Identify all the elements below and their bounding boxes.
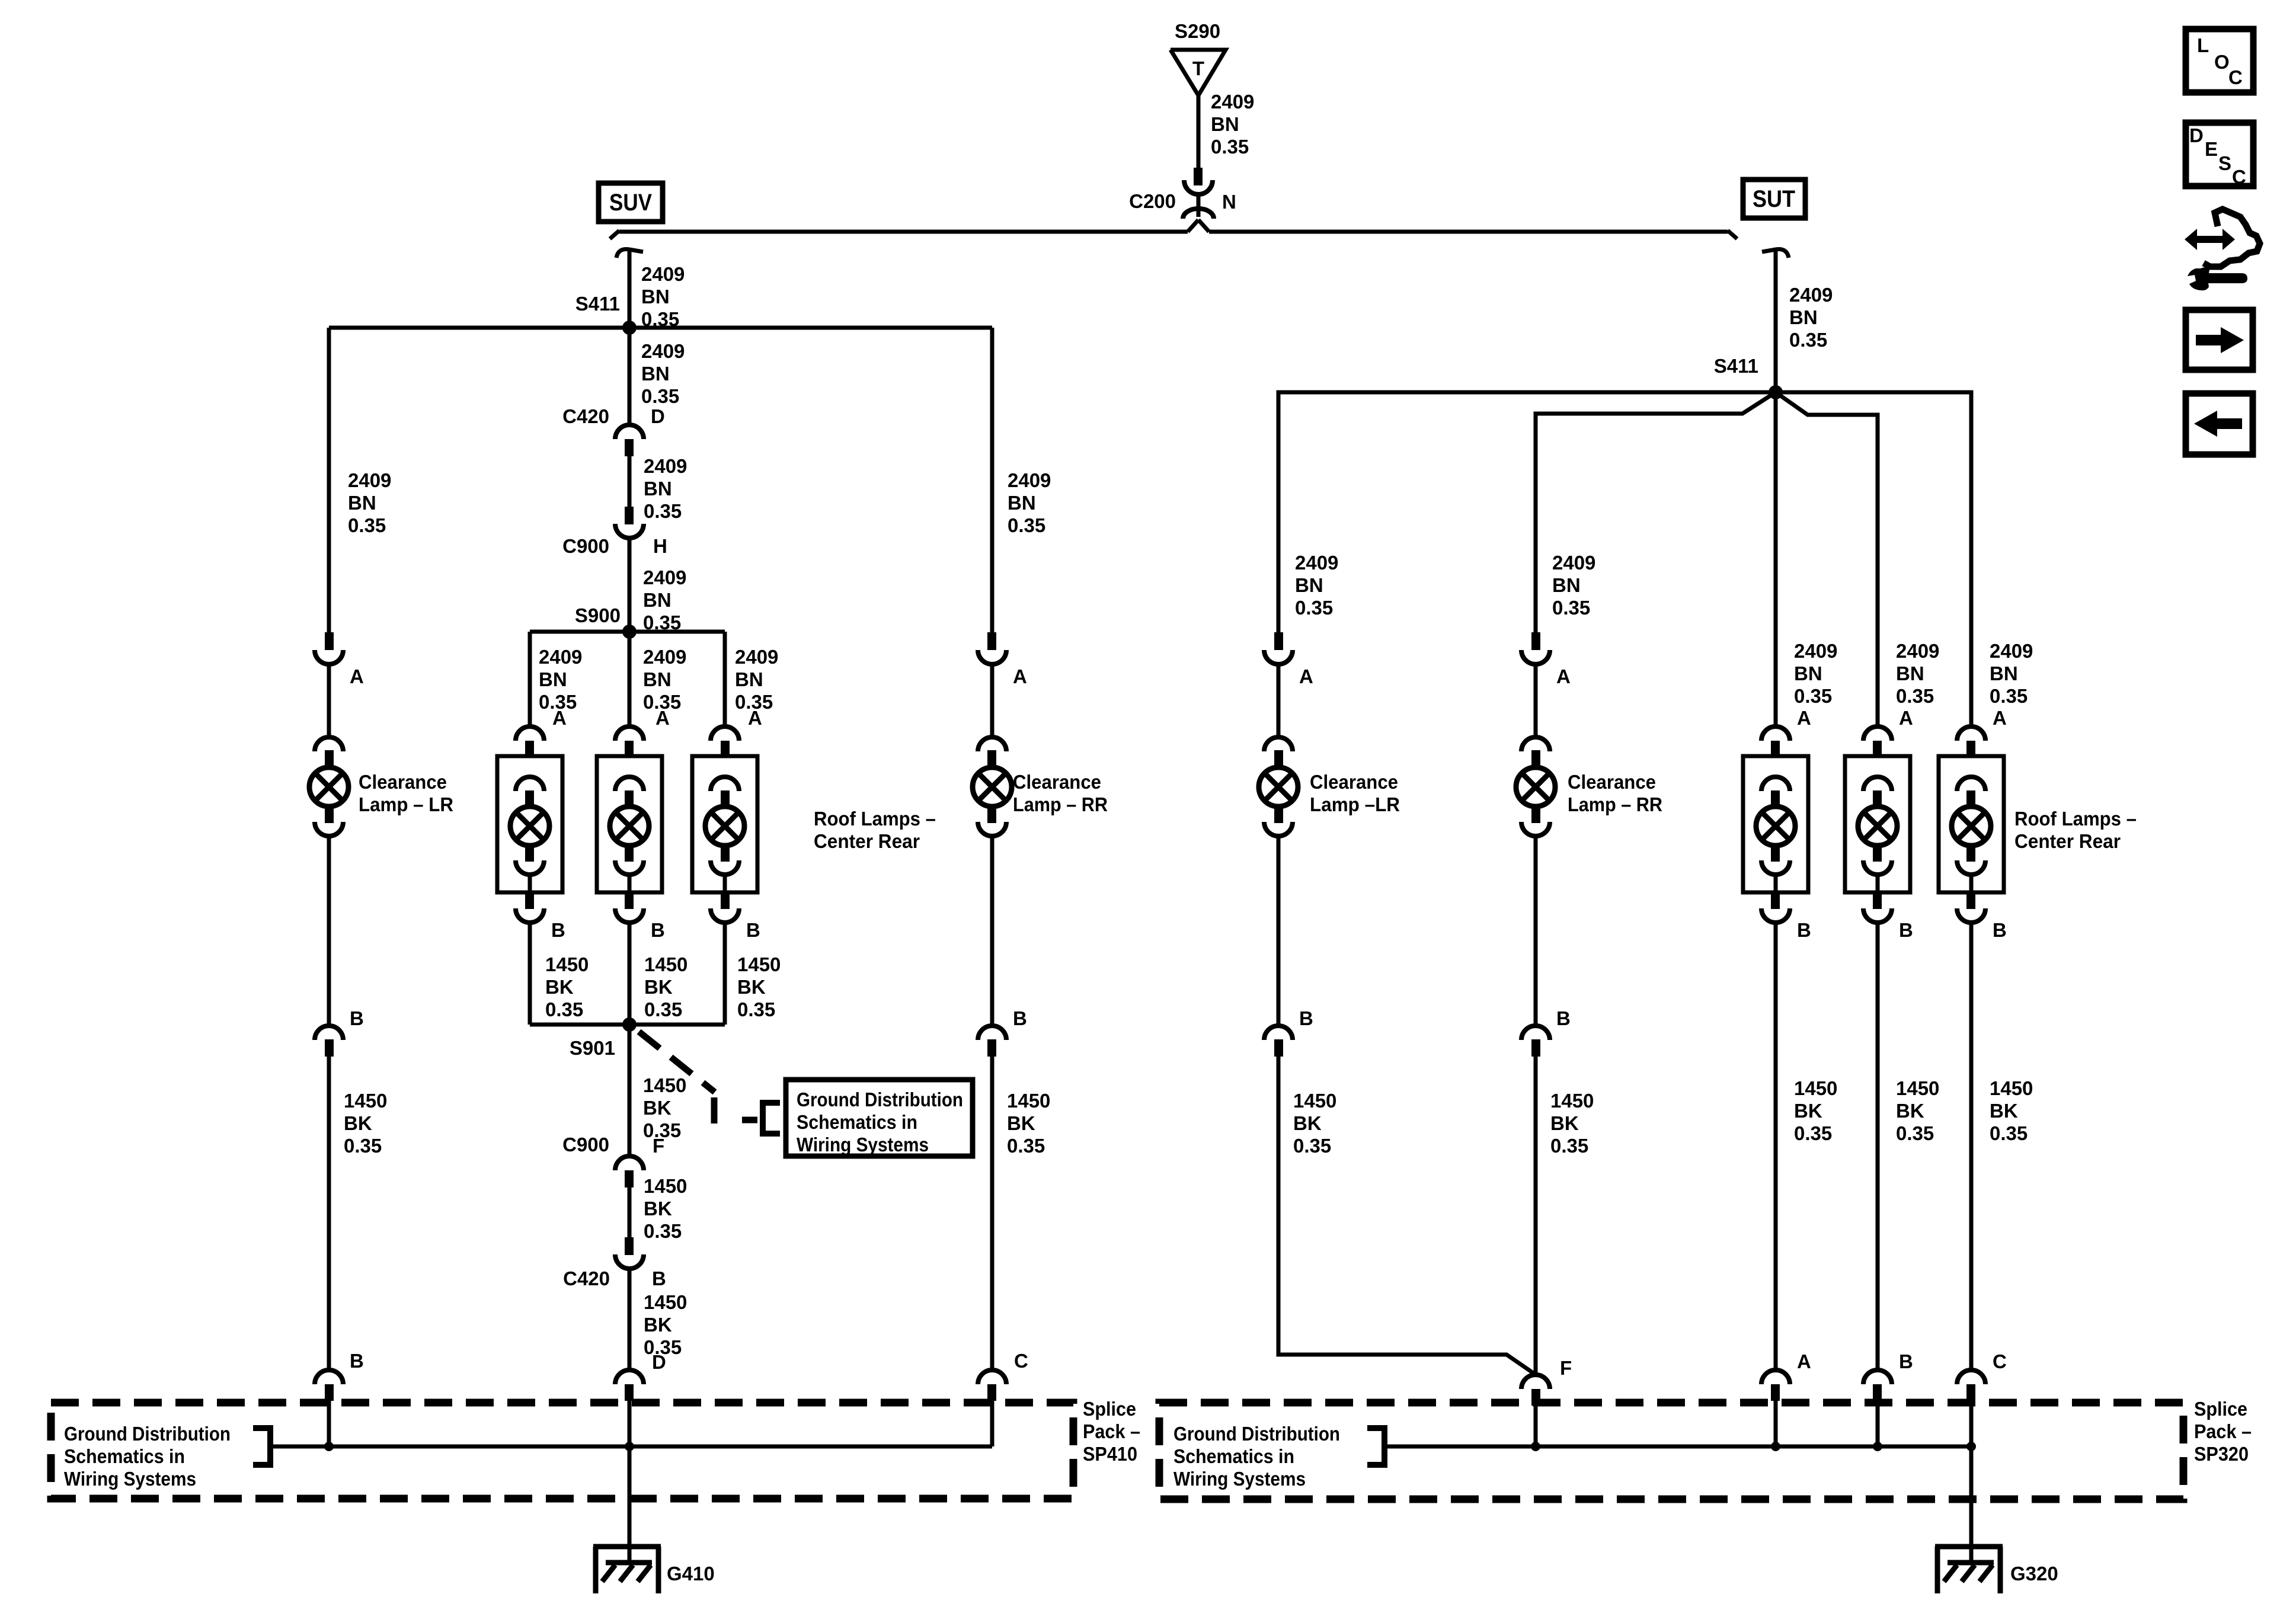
bus break chevron at C200	[1188, 220, 1209, 232]
svg-text:F: F	[1560, 1357, 1572, 1379]
svg-text:2409: 2409	[1552, 552, 1595, 574]
inline connector A (clearance LR right)	[1264, 632, 1293, 664]
connector pin letter B (clearance RR right)	[1556, 1007, 1571, 1029]
svg-text:S411: S411	[575, 293, 620, 315]
splice pack SP410 pin C connector	[978, 1370, 1006, 1401]
roof lamp 2 box (right)	[1845, 756, 1910, 892]
wire clearance LR right to F junction	[1278, 1057, 1536, 1374]
svg-text:2409: 2409	[644, 455, 687, 477]
svg-text:A: A	[552, 707, 567, 729]
wire take-off curl left (SUV)	[616, 249, 643, 258]
svg-text:C: C	[1014, 1350, 1028, 1372]
svg-text:2409: 2409	[1295, 552, 1338, 574]
wire label 1450 BK 0.35 (S901-C900)	[643, 1074, 686, 1141]
wire SP410 to ground G410	[628, 1446, 632, 1563]
svg-text:2409: 2409	[1896, 640, 1939, 662]
wire S411 to roof lamp 2 (right)	[1776, 392, 1878, 726]
splice pack SP320 dashed box	[1159, 1403, 2183, 1499]
wire S411 down to C420 (left center)	[628, 328, 632, 424]
connector pin letter A (clearance LR left)	[350, 665, 364, 687]
svg-text:2409: 2409	[643, 646, 686, 668]
svg-text:BN: BN	[1789, 306, 1818, 328]
svg-text:Lamp – RR: Lamp – RR	[1568, 793, 1662, 815]
wire S900 branch to roof lamp 1 (left)	[528, 632, 532, 726]
wire A to clearance lamp LR (left)	[327, 664, 331, 737]
svg-text:Clearance: Clearance	[1568, 771, 1656, 793]
svg-text:1450: 1450	[737, 953, 781, 975]
svg-text:Lamp – RR: Lamp – RR	[1013, 793, 1108, 815]
svg-text:Ground Distribution: Ground Distribution	[1173, 1423, 1340, 1445]
dashed reference leader from S901	[639, 1032, 757, 1124]
wire pin A to SP320 bus	[1774, 1401, 1778, 1446]
svg-text:BN: BN	[1008, 492, 1036, 514]
inline connector B (roof lamp 2 left)	[615, 892, 644, 923]
connector pin letter B (roof lamp 3 left)	[746, 919, 760, 941]
roof lamp 1 box (right)	[1743, 756, 1808, 892]
splice pack SP410 label	[1083, 1398, 1140, 1465]
wire label 1450 BK 0.35 (roof lamp 1 right)	[1794, 1077, 1837, 1144]
wire S411 to roof lamp 3 (right)	[1776, 392, 1971, 726]
svg-text:Wiring Systems: Wiring Systems	[797, 1134, 929, 1156]
svg-text:2409: 2409	[735, 646, 778, 668]
svg-text:0.35: 0.35	[1896, 1122, 1934, 1144]
splice pack pin letter F	[1560, 1357, 1572, 1379]
connector pin letter A (clearance LR right)	[1299, 665, 1313, 687]
svg-text:A: A	[1993, 707, 2007, 729]
roof lamp 1 bulb (left)	[510, 777, 549, 892]
splice pack SP410 dashed box	[51, 1403, 1073, 1499]
wire B to splice pack (clearance RR left)	[990, 1057, 994, 1369]
connector pin letter B (clearance LR left)	[350, 1007, 364, 1029]
splice pack SP320 label	[2194, 1398, 2252, 1465]
splice pack SP320 pin B connector	[1863, 1370, 1892, 1401]
wire label 2409 BN 0.35 (roof lamp 1 right)	[1794, 640, 1837, 707]
connector C900 name label (bottom)	[562, 1134, 609, 1156]
svg-text:Center Rear: Center Rear	[2014, 830, 2121, 852]
roof lamp 2 box (left)	[597, 756, 662, 892]
wire pin F to SP320 bus	[1534, 1406, 1538, 1446]
connector pin letter B (clearance RR left)	[1013, 1007, 1027, 1029]
svg-text:C420: C420	[562, 405, 609, 427]
splice pack SP410 note text	[64, 1423, 231, 1490]
connector pin letter A (roof lamp 2 left)	[655, 707, 670, 729]
splice pack SP320 pin A connector	[1761, 1370, 1790, 1401]
wire S411 to clearance lamp LR (left)	[327, 328, 331, 632]
splice pack SP320 note bracket	[1367, 1428, 1384, 1465]
svg-text:SUV: SUV	[609, 190, 652, 216]
svg-text:BK: BK	[344, 1112, 372, 1134]
splice pack SP320 pin F connector	[1521, 1375, 1550, 1406]
svg-text:L: L	[2197, 34, 2209, 56]
inline connector A (clearance LR left)	[315, 632, 343, 664]
svg-text:2409: 2409	[1990, 640, 2033, 662]
svg-text:B: B	[1013, 1007, 1027, 1029]
svg-text:1450: 1450	[1896, 1077, 1939, 1099]
roof lamps name label (right)	[2014, 808, 2137, 852]
wire S411 down to roof lamp 1 (right)	[1774, 392, 1778, 726]
svg-text:0.35: 0.35	[348, 514, 386, 536]
svg-text:1450: 1450	[1550, 1090, 1594, 1112]
svg-text:Roof Lamps –: Roof Lamps –	[2014, 808, 2137, 830]
splice S901 junction dot	[622, 1017, 637, 1032]
splice pack pin letter C (right)	[1993, 1350, 2007, 1372]
svg-text:S: S	[2218, 152, 2231, 174]
wire A to clearance lamp RR (left)	[990, 664, 994, 737]
svg-text:0.35: 0.35	[1896, 685, 1934, 707]
splice S290 triangle symbol	[1171, 50, 1226, 95]
wire clearance RR right to F connector	[1534, 1057, 1538, 1374]
svg-text:0.35: 0.35	[1794, 1122, 1832, 1144]
wire label 1450 BK 0.35 (clearance RR right)	[1550, 1090, 1594, 1157]
wire roof lamp 2 to S901 (left)	[628, 923, 632, 1025]
roof lamp 2 bulb (left)	[610, 777, 649, 892]
wire S411 to clearance lamp RR (left)	[990, 328, 994, 632]
connector pin letter B (roof lamp 2 right)	[1899, 919, 1913, 941]
svg-text:B: B	[350, 1007, 364, 1029]
svg-text:A: A	[1899, 707, 1913, 729]
svg-text:G410: G410	[667, 1563, 715, 1585]
wire label 2409 BN 0.35 (S290-C200)	[1211, 91, 1254, 158]
svg-text:0.35: 0.35	[344, 1135, 382, 1157]
svg-text:B: B	[1899, 1350, 1913, 1372]
svg-text:BN: BN	[641, 286, 670, 308]
wire C420 B to splice pack SP410 pin D	[628, 1269, 632, 1369]
svg-text:0.35: 0.35	[1007, 1135, 1045, 1157]
svg-text:2409: 2409	[1789, 284, 1833, 306]
svg-text:BN: BN	[539, 668, 567, 690]
nav icon previous-page button	[2186, 393, 2253, 454]
wire label 1450 BK 0.35 (roof lamp 2 left)	[644, 953, 687, 1020]
wire SUV drop to S411	[628, 249, 632, 328]
svg-text:Ground Distribution: Ground Distribution	[797, 1089, 963, 1110]
bus end hook left	[610, 231, 619, 239]
connector C200 pin N symbol	[1183, 168, 1214, 219]
svg-text:BK: BK	[1990, 1100, 2018, 1122]
wire label 2409 BN 0.35 (C900-S900)	[643, 566, 686, 633]
wire label 1450 BK 0.35 (roof lamp 1 left)	[545, 953, 589, 1020]
inline connector B (roof lamp 1 right)	[1761, 892, 1790, 923]
wire B to splice pack (clearance LR left)	[327, 1057, 331, 1369]
svg-text:A: A	[1797, 1350, 1811, 1372]
inline connector B (roof lamp 3 left)	[711, 892, 739, 923]
svg-text:2409: 2409	[539, 646, 582, 668]
svg-text:Pack –: Pack –	[2194, 1420, 2252, 1442]
svg-text:H: H	[653, 535, 667, 557]
svg-text:0.35: 0.35	[1295, 597, 1333, 619]
wire S900 branch to roof lamp 2 (left)	[628, 632, 632, 726]
svg-text:BN: BN	[1552, 574, 1581, 596]
svg-text:S290: S290	[1175, 20, 1220, 42]
svg-text:0.35: 0.35	[1794, 685, 1832, 707]
connector pin letter A (roof lamp 2 right)	[1899, 707, 1913, 729]
svg-text:Ground Distribution: Ground Distribution	[64, 1423, 231, 1445]
clearance lamp RR name label (left)	[1013, 771, 1108, 815]
connector pin letter A (roof lamp 1 left)	[552, 707, 567, 729]
svg-text:B: B	[1299, 1007, 1313, 1029]
wire label 1450 BK 0.35 (clearance LR left)	[344, 1090, 387, 1157]
wire A to clearance lamp RR (right)	[1534, 664, 1538, 737]
svg-text:0.35: 0.35	[644, 1220, 682, 1242]
svg-text:C: C	[2232, 166, 2246, 188]
svg-text:BK: BK	[1293, 1112, 1322, 1134]
svg-text:0.35: 0.35	[737, 998, 775, 1020]
wire S290 to C200	[1197, 93, 1201, 169]
SP410 bus junction dot (clearance LR)	[324, 1442, 334, 1451]
svg-text:2409: 2409	[641, 340, 685, 362]
svg-text:A: A	[748, 707, 762, 729]
svg-text:2409: 2409	[348, 469, 391, 491]
wire S411 horizontal (left)	[329, 326, 992, 330]
svg-text:T: T	[1192, 57, 1204, 79]
splice pack SP410 note bracket	[253, 1428, 270, 1465]
svg-text:BK: BK	[545, 976, 574, 998]
svg-text:Wiring Systems: Wiring Systems	[1173, 1468, 1306, 1490]
inline connector A (roof lamp 2 left)	[615, 726, 644, 757]
wire take-off curl right (SUT)	[1762, 249, 1789, 258]
svg-text:BK: BK	[643, 1097, 671, 1119]
connector C900 pin H (left center)	[615, 507, 644, 538]
bus end hook right	[1728, 231, 1737, 239]
svg-text:BN: BN	[643, 668, 671, 690]
svg-text:BN: BN	[1211, 113, 1239, 135]
ground G410 label	[667, 1563, 715, 1585]
connector C900 name label (left top)	[562, 535, 609, 557]
inline connector B (clearance LR left)	[315, 1026, 343, 1057]
inline connector B (clearance RR left)	[978, 1026, 1006, 1057]
inline connector A (roof lamp 3 left)	[711, 726, 739, 757]
svg-text:S901: S901	[570, 1037, 615, 1059]
splice pack pin letter D	[652, 1351, 666, 1373]
svg-text:1450: 1450	[1990, 1077, 2033, 1099]
svg-text:O: O	[2214, 51, 2230, 73]
connector pin letter B (clearance LR right)	[1299, 1007, 1313, 1029]
svg-text:D: D	[2189, 124, 2204, 146]
svg-text:BK: BK	[1007, 1112, 1035, 1134]
SP410 bus junction dot (center)	[625, 1442, 634, 1451]
svg-text:2409: 2409	[1794, 640, 1837, 662]
svg-text:BN: BN	[644, 478, 672, 500]
svg-text:B: B	[651, 919, 665, 941]
wire S901 to C900 F	[628, 1025, 632, 1156]
clearance lamp LR name label (left)	[359, 771, 453, 815]
roof lamp 1 box (left)	[497, 756, 562, 892]
svg-text:0.35: 0.35	[1293, 1135, 1331, 1157]
svg-text:B: B	[1993, 919, 2007, 941]
inline connector B (roof lamp 3 right)	[1957, 892, 1985, 923]
svg-text:Pack –: Pack –	[1083, 1420, 1140, 1442]
svg-text:BN: BN	[1990, 662, 2018, 684]
svg-text:1450: 1450	[1794, 1077, 1837, 1099]
svg-text:Schematics in: Schematics in	[797, 1111, 917, 1133]
svg-text:0.35: 0.35	[1789, 329, 1827, 351]
connector C420 pin letter B	[652, 1267, 666, 1289]
inline connector A (clearance RR right)	[1521, 632, 1550, 664]
svg-text:SP320: SP320	[2194, 1443, 2249, 1465]
wire label 2409 BN 0.35 (clearance LR right)	[1295, 552, 1338, 619]
svg-text:C200: C200	[1129, 190, 1176, 212]
wire label 1450 BK 0.35 (clearance LR right)	[1293, 1090, 1336, 1157]
splice pack SP320 pin C connector	[1957, 1370, 1985, 1401]
wire roof lamp 1 to S901 (left)	[528, 923, 532, 1025]
svg-text:C900: C900	[562, 535, 609, 557]
clearance lamp RR bulb (left)	[973, 737, 1012, 836]
svg-text:Lamp –LR: Lamp –LR	[1310, 793, 1400, 815]
wire pin C to SP410 bus	[990, 1401, 994, 1446]
connector C420 name label (bottom)	[563, 1267, 610, 1289]
splice S290 label	[1175, 20, 1220, 42]
clearance lamp RR name label (right)	[1568, 771, 1662, 815]
svg-text:0.35: 0.35	[644, 998, 682, 1020]
splice S411 junction dot (right)	[1769, 385, 1783, 399]
wire pin B to SP410 bus	[327, 1401, 331, 1446]
SP320 bus junction dot (pin A)	[1771, 1442, 1780, 1451]
connector pin letter B (roof lamp 2 left)	[651, 919, 665, 941]
svg-text:E: E	[2205, 138, 2218, 160]
wire label 2409 BN 0.35 (roof lamp 2 right)	[1896, 640, 1939, 707]
inline connector A (roof lamp 2 right)	[1863, 726, 1892, 757]
ground G320 label	[2010, 1563, 2058, 1585]
inline connector B (roof lamp 1 left)	[516, 892, 544, 923]
svg-text:0.35: 0.35	[1552, 597, 1590, 619]
svg-text:D: D	[652, 1351, 666, 1373]
wire label 2409 BN 0.35 (roof lamp 3 right)	[1990, 640, 2033, 707]
svg-text:1450: 1450	[643, 1074, 686, 1096]
inline connector A (clearance RR left)	[978, 632, 1006, 664]
connector C200 name label	[1129, 190, 1176, 212]
wire S900 branch to roof lamp 3 (left)	[723, 632, 727, 726]
svg-text:1450: 1450	[644, 1291, 687, 1313]
svg-text:BN: BN	[1896, 662, 1924, 684]
inline connector A (roof lamp 1 right)	[1761, 726, 1790, 757]
svg-text:BN: BN	[643, 589, 671, 611]
svg-text:1450: 1450	[644, 1175, 687, 1197]
wire SP320 to ground G320	[1969, 1446, 1974, 1563]
svg-text:BK: BK	[1896, 1100, 1924, 1122]
svg-text:D: D	[651, 405, 665, 427]
svg-text:1450: 1450	[1293, 1090, 1336, 1112]
svg-text:BN: BN	[1295, 574, 1323, 596]
clearance lamp LR name label (right)	[1310, 771, 1400, 815]
wire label 1450 BK 0.35 (clearance RR left)	[1007, 1090, 1050, 1157]
svg-text:Clearance: Clearance	[1310, 771, 1398, 793]
splice pack pin letter C	[1014, 1350, 1028, 1372]
svg-text:A: A	[1299, 665, 1313, 687]
roof lamp 3 bulb (right)	[1952, 777, 1991, 892]
svg-text:Splice: Splice	[2194, 1398, 2247, 1420]
svg-text:0.35: 0.35	[1211, 136, 1249, 158]
splice S411 junction dot (left)	[622, 321, 637, 335]
wire label 2409 BN 0.35 (roof lamp 1 left)	[539, 646, 582, 713]
wire label 1450 BK 0.35 (C420-SP410)	[644, 1291, 687, 1358]
connector C420 name label (left top)	[562, 405, 609, 427]
svg-text:2409: 2409	[1211, 91, 1254, 113]
svg-text:0.35: 0.35	[1008, 514, 1045, 536]
ground G320 symbol	[1935, 1547, 2003, 1593]
inline connector A (roof lamp 3 right)	[1957, 726, 1985, 757]
svg-text:1450: 1450	[1007, 1090, 1050, 1112]
connector pin letter B (roof lamp 1 left)	[551, 919, 565, 941]
wire label 2409 BN 0.35 (clearance RR left)	[1008, 469, 1051, 536]
svg-text:BN: BN	[641, 363, 670, 385]
roof lamp 3 bulb (left)	[705, 777, 744, 892]
wire S900 horizontal	[530, 630, 725, 634]
inline connector B (clearance RR right)	[1521, 1026, 1550, 1057]
wire C900 to S900	[628, 538, 632, 632]
bus wire SUV-side horizontal	[619, 230, 1188, 234]
svg-text:G320: G320	[2010, 1563, 2058, 1585]
splice pack SP410 pin D connector	[615, 1370, 644, 1401]
wire label 2409 BN 0.35 (SUT-S411)	[1789, 284, 1833, 351]
wire roof lamp 3 to splice pack SP320	[1969, 923, 1974, 1369]
svg-text:BK: BK	[644, 976, 673, 998]
splice S901 label	[570, 1037, 615, 1059]
nav icon LOC button	[2186, 29, 2253, 92]
wire label 2409 BN 0.35 (SUV-S411)	[641, 263, 685, 330]
nav icon DESC button	[2186, 123, 2253, 188]
splice S411 label (right)	[1714, 355, 1758, 377]
component box SUT	[1743, 180, 1805, 218]
svg-text:Schematics in: Schematics in	[1173, 1445, 1294, 1467]
bus wire SUT-side horizontal	[1209, 230, 1728, 234]
splice pack pin letter B (right)	[1899, 1350, 1913, 1372]
splice pack SP320 internal bus	[1384, 1445, 1971, 1449]
wire pin C to SP320 bus	[1969, 1401, 1974, 1446]
connector pin letter B (roof lamp 3 right)	[1993, 919, 2007, 941]
wire S901 horizontal	[530, 1023, 725, 1027]
splice S900 label	[575, 604, 621, 626]
connector C420 pin B symbol	[615, 1237, 644, 1269]
note box Ground Distribution (S901)	[786, 1080, 973, 1156]
connector pin letter A (roof lamp 3 right)	[1993, 707, 2007, 729]
svg-text:B: B	[1797, 919, 1811, 941]
wire A to clearance lamp LR (right)	[1277, 664, 1281, 737]
reference bracket at note box (S901)	[763, 1103, 780, 1134]
svg-text:Clearance: Clearance	[359, 771, 447, 793]
svg-text:0.35: 0.35	[1990, 685, 2028, 707]
connector C200 pin letter N	[1222, 191, 1236, 213]
svg-text:B: B	[652, 1267, 666, 1289]
splice pack pin letter B	[350, 1350, 364, 1372]
svg-text:A: A	[1797, 707, 1811, 729]
SP320 bus junction dot (pin B)	[1873, 1442, 1882, 1451]
svg-text:B: B	[746, 919, 760, 941]
svg-text:BN: BN	[348, 492, 376, 514]
svg-text:A: A	[655, 707, 670, 729]
inline connector B (roof lamp 2 right)	[1863, 892, 1892, 923]
wire label 2409 BN 0.35 (C420-C900)	[644, 455, 687, 522]
component box SUV	[599, 183, 663, 222]
clearance lamp LR bulb (right)	[1259, 737, 1298, 836]
splice pack SP410 pin B connector	[315, 1370, 343, 1401]
svg-text:BN: BN	[1794, 662, 1822, 684]
wire roof lamp 1 to splice pack SP320	[1774, 923, 1778, 1369]
svg-text:Splice: Splice	[1083, 1398, 1136, 1420]
clearance lamp LR bulb (left)	[309, 737, 348, 836]
svg-text:2409: 2409	[643, 566, 686, 588]
wire label 1450 BK 0.35 (roof lamp 3 right)	[1990, 1077, 2033, 1144]
wire pin B to SP320 bus	[1876, 1401, 1880, 1446]
wire pin D to SP410 bus	[628, 1401, 632, 1446]
svg-text:Center Rear: Center Rear	[814, 830, 920, 852]
inline connector A (roof lamp 1 left)	[516, 726, 544, 757]
splice pack SP320 note text	[1173, 1423, 1340, 1490]
wire label 1450 BK 0.35 (roof lamp 3 left)	[737, 953, 781, 1020]
splice pack pin letter A (right)	[1797, 1350, 1811, 1372]
wire roof lamp 3 to S901 (left)	[723, 923, 727, 1025]
nav icon hotspot (arrows and wrench)	[2185, 209, 2260, 290]
nav icon next-page button	[2186, 310, 2253, 370]
connector C900 pin letter F	[653, 1135, 664, 1157]
